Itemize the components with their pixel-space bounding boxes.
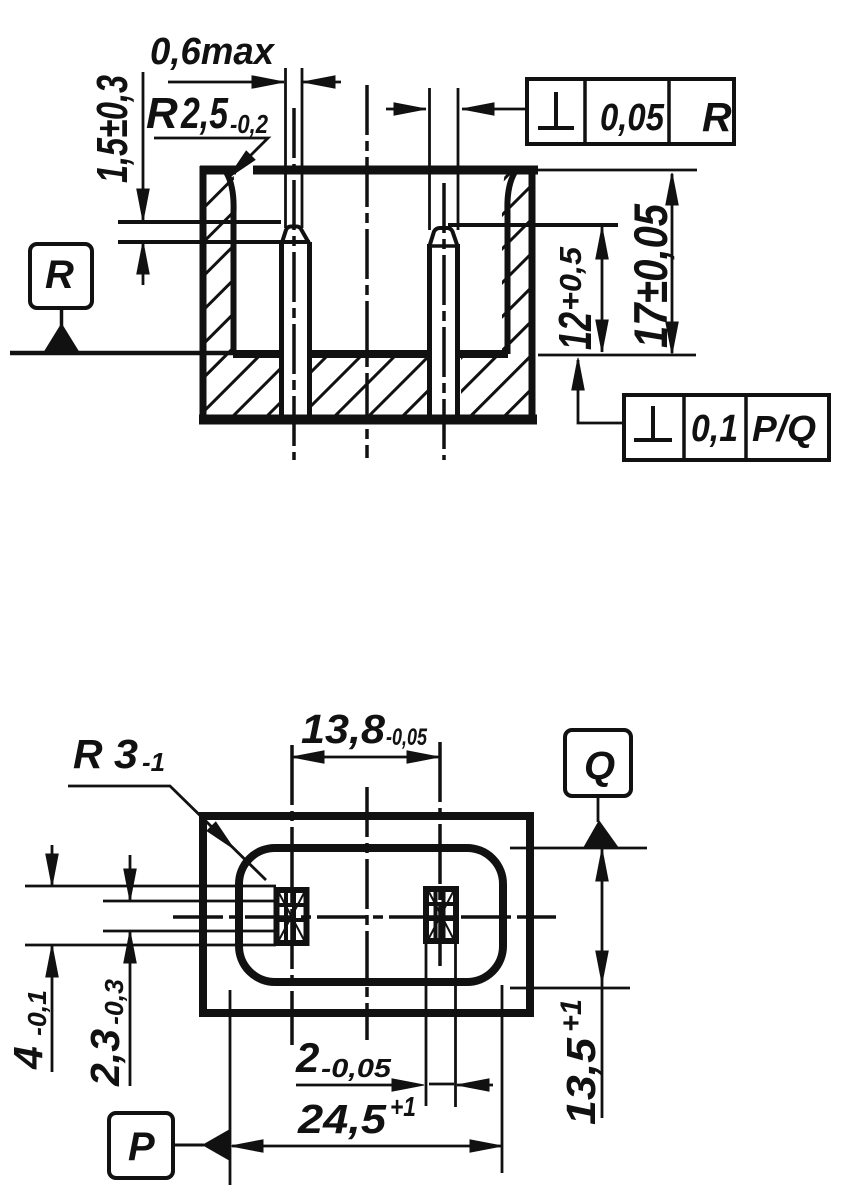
svg-text:0,6max: 0,6max [150, 31, 276, 73]
svg-text:17±0,05: 17±0,05 [624, 203, 677, 348]
svg-text:4: 4 [5, 1046, 51, 1070]
svg-text:0,1: 0,1 [691, 408, 738, 450]
svg-text:3: 3 [114, 731, 138, 777]
svg-text:+0,5: +0,5 [553, 246, 588, 311]
svg-text:-0,2: -0,2 [230, 109, 268, 139]
svg-text:-1: -1 [142, 747, 165, 777]
svg-text:P/Q: P/Q [752, 408, 816, 449]
svg-text:+1: +1 [390, 1091, 416, 1122]
svg-text:2: 2 [295, 1034, 319, 1081]
svg-text:12: 12 [549, 312, 601, 350]
svg-text:R: R [146, 89, 178, 138]
svg-text:Q: Q [584, 744, 615, 788]
svg-text:1,5±0,3: 1,5±0,3 [88, 75, 137, 183]
svg-text:-0,3: -0,3 [99, 978, 129, 1025]
svg-text:R: R [702, 94, 732, 140]
svg-text:R: R [45, 253, 74, 297]
svg-text:-0,05: -0,05 [386, 724, 427, 751]
svg-text:2,5: 2,5 [180, 89, 228, 138]
svg-text:13,5: 13,5 [558, 1037, 604, 1125]
svg-text:0,05: 0,05 [600, 97, 665, 139]
svg-text:P: P [128, 1125, 155, 1169]
svg-text:-0,1: -0,1 [22, 990, 52, 1036]
svg-text:2,3: 2,3 [82, 1029, 128, 1087]
svg-text:+1: +1 [555, 999, 588, 1032]
svg-text:13,8: 13,8 [301, 706, 385, 752]
svg-text:-0,05: -0,05 [321, 1053, 392, 1083]
svg-text:R: R [73, 731, 103, 777]
svg-text:24,5: 24,5 [297, 1096, 387, 1142]
